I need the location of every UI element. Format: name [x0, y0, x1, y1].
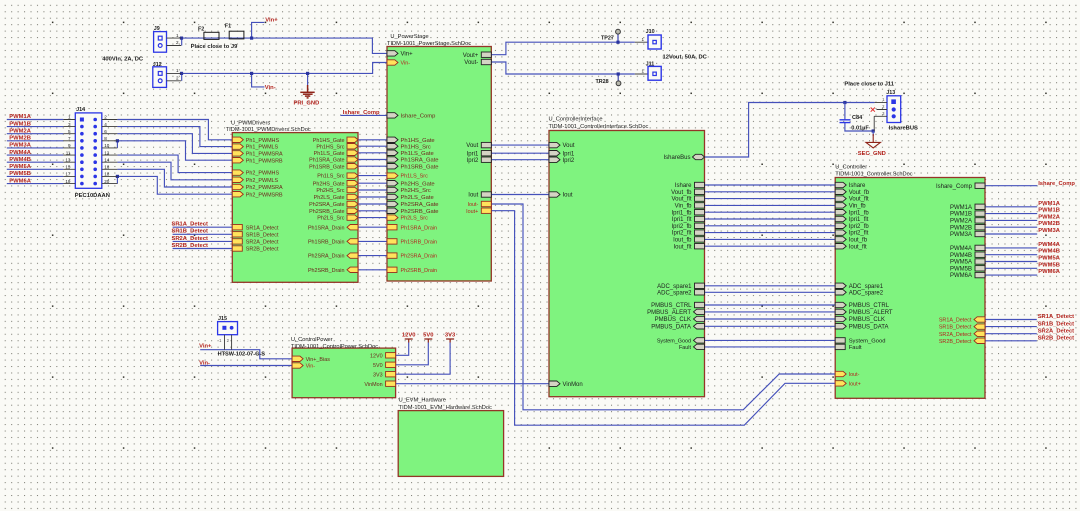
- wire Vin- to ControlPower: [200, 365, 292, 367]
- J15 pin lines: [225, 335, 232, 350]
- test point TP28: [616, 81, 621, 86]
- port Vin+: [387, 51, 398, 56]
- svg-text:18: 18: [104, 172, 110, 177]
- port ADC_spare1: [835, 283, 846, 288]
- svg-text:12Vout, 50A, DC: 12Vout, 50A, DC: [663, 55, 708, 61]
- svg-text:17: 17: [65, 172, 71, 177]
- capacitor C84: [840, 120, 851, 123]
- wires ControllerInterface to Controller feedback signals: [705, 184, 836, 186]
- port Vout+: [481, 52, 491, 57]
- port PWM2A: [975, 218, 985, 223]
- svg-text:3V3: 3V3: [373, 372, 383, 378]
- power port PRI_GND: [300, 85, 314, 98]
- fuse F1: [229, 31, 244, 39]
- svg-text:Ph1HS_Gate: Ph1HS_Gate: [401, 138, 435, 144]
- svg-text:ADC_spare1: ADC_spare1: [657, 284, 692, 290]
- port Ph2SRB_Drain: [347, 267, 358, 272]
- svg-text:PWM2A: PWM2A: [9, 128, 31, 134]
- port Ph1LS_Src: [387, 173, 398, 178]
- connector J11: [635, 73, 653, 75]
- svg-text:Fault: Fault: [849, 345, 862, 351]
- svg-text:J11: J11: [646, 62, 655, 68]
- svg-text:Vout-: Vout-: [464, 60, 478, 66]
- svg-text:Ph1SRA_Gate: Ph1SRA_Gate: [401, 158, 439, 164]
- svg-text:Vout+: Vout+: [463, 53, 479, 59]
- svg-text:400VIn, 2A, DC: 400VIn, 2A, DC: [102, 57, 144, 63]
- svg-text:Ph1_PWMHS: Ph1_PWMHS: [246, 138, 280, 144]
- svg-text:Ipri1: Ipri1: [467, 151, 479, 157]
- port System_Good: [694, 338, 705, 343]
- svg-text:Ph1LS_Gate: Ph1LS_Gate: [401, 151, 434, 157]
- svg-text:Ph1_PWMSRA: Ph1_PWMSRA: [246, 152, 283, 158]
- svg-text:Vout: Vout: [466, 143, 478, 149]
- svg-text:PMBUS_DATA: PMBUS_DATA: [849, 324, 889, 330]
- svg-text:Vin+_Bias: Vin+_Bias: [306, 357, 331, 363]
- power port SEC_GND: [866, 134, 880, 148]
- svg-text:PWM2A: PWM2A: [950, 219, 972, 225]
- port SR2A_Detect: [974, 331, 985, 336]
- port Ipri1_flt: [835, 216, 846, 221]
- junction TP27: [616, 41, 619, 44]
- svg-text:J14: J14: [76, 107, 85, 113]
- port Fault: [694, 344, 705, 349]
- port Ph2LS_Gate: [387, 194, 398, 199]
- port Ph2_PWMSRA: [232, 184, 243, 189]
- svg-text:PWM5A: PWM5A: [1038, 256, 1060, 262]
- svg-text:PWM1A: PWM1A: [950, 205, 972, 211]
- port ADC_spare2: [835, 290, 846, 295]
- port ADC_spare1: [695, 283, 705, 288]
- svg-text:PWM6A: PWM6A: [1038, 269, 1060, 275]
- port Ph2SRB_Gate: [347, 208, 358, 213]
- svg-text:PMBUS_ALERT: PMBUS_ALERT: [647, 310, 691, 316]
- svg-text:ADC_spare2: ADC_spare2: [849, 290, 884, 296]
- port Ipri1: [481, 151, 491, 156]
- svg-text:Ph2SRB_Drain: Ph2SRB_Drain: [401, 268, 438, 274]
- svg-text:Ph1SRA_Drain: Ph1SRA_Drain: [401, 225, 438, 231]
- svg-text:SR2B_Detect: SR2B_Detect: [939, 339, 972, 345]
- svg-text:U_PowerStage: U_PowerStage: [390, 34, 428, 40]
- svg-text:Ishare_Comp: Ishare_Comp: [936, 184, 973, 190]
- svg-text:U_ControllerInterface: U_ControllerInterface: [549, 117, 603, 123]
- svg-text:System_Good: System_Good: [657, 339, 691, 345]
- port SR1B_Detect: [232, 232, 242, 237]
- port Iout_flt: [695, 244, 705, 249]
- port SR1A_Detect: [232, 225, 242, 230]
- port Ph2HS_Src: [347, 187, 358, 192]
- svg-text:Vin-: Vin-: [401, 61, 411, 67]
- svg-text:Iout_fb: Iout_fb: [849, 238, 868, 244]
- svg-text:Vin-: Vin-: [306, 364, 316, 370]
- wire Ishare_Comp stub into PowerStage: [341, 114, 388, 116]
- power port 3V3: [446, 339, 454, 343]
- wire Iout+ to Controller: [491, 211, 836, 426]
- svg-text:PWM5B: PWM5B: [950, 266, 972, 272]
- svg-text:1: 1: [68, 115, 71, 120]
- wire Ipri1: [491, 152, 549, 154]
- port PWM4B: [975, 252, 985, 257]
- port Vout_fb: [835, 189, 846, 194]
- svg-text:PWM4B: PWM4B: [1038, 249, 1060, 255]
- svg-text:SR2A_Detect: SR2A_Detect: [246, 240, 279, 246]
- svg-text:J13: J13: [886, 90, 895, 96]
- port Ishare: [695, 182, 705, 187]
- svg-text:ADC_spare2: ADC_spare2: [657, 290, 692, 296]
- svg-text:Ph2LS_Gate: Ph2LS_Gate: [314, 195, 345, 201]
- svg-text:2: 2: [176, 76, 179, 81]
- wire Vin+ to ControlPower: [200, 350, 292, 359]
- svg-text:Iout: Iout: [563, 193, 573, 199]
- port Ishare: [835, 182, 846, 187]
- wire Ishare_Comp stub right of Controller: [985, 185, 1037, 187]
- svg-text:Ipri1: Ipri1: [563, 151, 575, 157]
- port System_Good: [835, 338, 845, 343]
- port Vin_fb: [695, 203, 705, 208]
- svg-text:Ipri2_flt: Ipri2_flt: [672, 231, 692, 237]
- svg-text:Ph2_PWMSRB: Ph2_PWMSRB: [246, 192, 283, 198]
- svg-text:PWM6A: PWM6A: [950, 273, 972, 279]
- svg-text:Ph1SRB_Gate: Ph1SRB_Gate: [401, 164, 439, 170]
- port PWM5A: [975, 259, 985, 264]
- sheet symbol U_EVM_Hardware: [398, 411, 503, 477]
- svg-text:5V0: 5V0: [373, 363, 383, 369]
- junction Vin+ branch: [250, 37, 253, 40]
- wires PWM output stubs right of Controller: [985, 206, 1037, 208]
- port Ipri1_fb: [835, 210, 846, 215]
- svg-text:PWM2B: PWM2B: [1038, 221, 1060, 227]
- svg-text:9: 9: [68, 143, 71, 148]
- port Vin+_Bias: [292, 356, 303, 361]
- svg-text:7: 7: [68, 136, 71, 141]
- wire 12V0 rail: [396, 343, 409, 356]
- port Ph1_PWMLS: [232, 144, 243, 149]
- svg-text:3V3: 3V3: [445, 333, 456, 339]
- svg-text:10: 10: [104, 143, 110, 148]
- port 12V0: [386, 353, 396, 358]
- port Ipri1_fb: [695, 210, 705, 215]
- svg-text:Ph1SRB_Gate: Ph1SRB_Gate: [309, 164, 344, 170]
- svg-text:PWM3A: PWM3A: [950, 232, 972, 238]
- port Vin-: [387, 60, 398, 65]
- svg-text:Ph2LS_Gate: Ph2LS_Gate: [401, 195, 434, 201]
- wire ControlPower VinMon to ControllerInterface: [396, 383, 549, 385]
- test point TP27: [616, 29, 621, 34]
- port Iout_fb: [835, 237, 846, 242]
- svg-text:Place close to J11: Place close to J11: [844, 81, 894, 87]
- svg-text:C84: C84: [852, 115, 863, 121]
- svg-text:Ph1HS_Gate: Ph1HS_Gate: [313, 138, 345, 144]
- svg-text:SR1B_Detect: SR1B_Detect: [246, 232, 279, 238]
- port Ph1SRB_Gate: [347, 164, 358, 169]
- svg-text:SR1A_Detect: SR1A_Detect: [1038, 314, 1074, 320]
- svg-text:Ph2LS_Src: Ph2LS_Src: [317, 216, 345, 222]
- svg-text:PWM2B: PWM2B: [9, 136, 31, 142]
- svg-text:Ph2_PWMSRA: Ph2_PWMSRA: [246, 185, 283, 191]
- port Iout-: [481, 201, 491, 206]
- svg-text:TP27: TP27: [601, 35, 614, 41]
- junction SEC_GND node: [872, 129, 875, 132]
- svg-text:2: 2: [104, 115, 107, 120]
- port Ph1HS_Src: [347, 144, 358, 149]
- svg-text:SR2A_Detect: SR2A_Detect: [939, 332, 972, 338]
- port Ipri2: [549, 157, 560, 162]
- connector J13: [887, 96, 901, 123]
- port Ph2HS_Gate: [347, 181, 358, 186]
- junction J14 pin8/10: [116, 139, 119, 142]
- port Ph2HS_Src: [387, 187, 398, 192]
- svg-text:J9: J9: [154, 26, 160, 32]
- svg-text:Vin+: Vin+: [265, 17, 278, 23]
- svg-text:Vin-: Vin-: [199, 360, 210, 366]
- svg-text:Ph1SRB_Drain: Ph1SRB_Drain: [401, 240, 438, 246]
- svg-text:5: 5: [68, 129, 71, 134]
- wire J12 pin2 hook: [181, 73, 183, 80]
- svg-text:TIDM-1001_ControlPower.SchDoc: TIDM-1001_ControlPower.SchDoc: [291, 344, 378, 350]
- junction J14 pin18/20: [116, 175, 119, 178]
- svg-text:SR1A_Detect: SR1A_Detect: [172, 222, 208, 228]
- svg-text:SEC_GND: SEC_GND: [858, 151, 886, 157]
- svg-text:Ipri2_flt: Ipri2_flt: [849, 231, 869, 237]
- wire C84 top lead: [844, 103, 846, 120]
- svg-text:TR28: TR28: [596, 79, 609, 85]
- svg-text:Vout_flt: Vout_flt: [671, 197, 691, 203]
- power port 5V0: [424, 339, 432, 343]
- sheet symbol U_Controller: [835, 178, 985, 399]
- port Iout+: [835, 381, 846, 386]
- wire 5V0 rail: [396, 343, 429, 365]
- svg-text:J15: J15: [218, 316, 227, 322]
- port SR2B_Detect: [974, 338, 985, 343]
- port PMBUS_DATA: [694, 324, 705, 329]
- port Ph1SRA_Drain: [387, 225, 397, 230]
- svg-text:Ph2_PWMHS: Ph2_PWMHS: [246, 171, 280, 177]
- svg-text:Ipri2: Ipri2: [563, 158, 575, 164]
- wire to PRI_GND: [307, 73, 309, 86]
- svg-text:Ph1SRA_Drain: Ph1SRA_Drain: [308, 225, 345, 231]
- svg-text:Iout+: Iout+: [849, 382, 861, 388]
- svg-text:PWM1B: PWM1B: [9, 121, 31, 127]
- svg-text:Ipri1_flt: Ipri1_flt: [672, 217, 692, 223]
- port Vout_fb: [695, 189, 705, 194]
- svg-text:Ipri2_fb: Ipri2_fb: [849, 224, 870, 230]
- svg-text:Ph2SRB_Drain: Ph2SRB_Drain: [308, 268, 345, 274]
- svg-text:4: 4: [104, 122, 107, 127]
- port Iout-: [835, 371, 846, 376]
- svg-text:Vin+: Vin+: [401, 52, 414, 58]
- svg-text:15: 15: [65, 165, 71, 170]
- svg-text:Ph2SRB_Gate: Ph2SRB_Gate: [401, 209, 439, 215]
- svg-text:1: 1: [176, 68, 179, 73]
- svg-text:Ph2HS_Gate: Ph2HS_Gate: [401, 181, 435, 187]
- svg-text:SR2A_Detect: SR2A_Detect: [1038, 328, 1074, 334]
- svg-text:PWM5A: PWM5A: [9, 164, 31, 170]
- wire Vout- to J11: [491, 62, 635, 74]
- wire J12 to Vin- of PowerStage: [181, 63, 387, 74]
- wire 3V3 rail: [396, 343, 451, 375]
- port Vout: [481, 142, 491, 147]
- port SR2B_Detect: [232, 246, 242, 251]
- port Ph1SRB_Drain: [347, 239, 358, 244]
- svg-text:PMBUS_CLK: PMBUS_CLK: [655, 317, 691, 323]
- svg-text:ADC_spare1: ADC_spare1: [849, 284, 884, 290]
- svg-text:SR1B_Detect: SR1B_Detect: [1038, 321, 1074, 327]
- wire Vout PowerStage to ControllerInterface: [491, 144, 549, 146]
- svg-text:PEC10DAAN: PEC10DAAN: [75, 193, 110, 199]
- svg-text:SR2B_Detect: SR2B_Detect: [246, 247, 279, 253]
- port Ph2LS_Gate: [347, 194, 358, 199]
- port PMBUS_DATA: [835, 324, 846, 329]
- svg-text:SR1B_Detect: SR1B_Detect: [939, 325, 972, 331]
- svg-text:IshareBus: IshareBus: [663, 155, 690, 161]
- port Ph1SRA_Gate: [347, 157, 358, 162]
- wires PWMDrivers gate outputs to PowerStage: [358, 139, 387, 141]
- svg-text:System_Good: System_Good: [849, 339, 886, 345]
- svg-text:PWM4A: PWM4A: [1038, 242, 1060, 248]
- svg-text:13: 13: [65, 157, 71, 162]
- junction Vin- branch: [250, 72, 253, 75]
- junction TP28: [617, 72, 620, 75]
- svg-text:Iout_fb: Iout_fb: [673, 238, 692, 244]
- port PMBUS_CLK: [694, 316, 705, 321]
- port Ph1LS_Gate: [387, 150, 398, 155]
- wire TP27 stem: [617, 34, 619, 42]
- junction J12 pins: [180, 72, 183, 75]
- sheet symbol U_PowerStage: [387, 47, 491, 282]
- svg-text:Vout: Vout: [563, 143, 575, 149]
- svg-text:Iout-: Iout-: [468, 202, 479, 208]
- port 5V0: [386, 362, 396, 367]
- svg-text:Vout_fb: Vout_fb: [849, 190, 870, 196]
- port Ph2_PWMSRB: [232, 192, 243, 197]
- svg-text:F2: F2: [198, 27, 204, 33]
- port SR1B_Detect: [974, 324, 985, 329]
- port Vout: [549, 142, 560, 147]
- svg-text:PMBUS_CTRL: PMBUS_CTRL: [849, 303, 890, 309]
- svg-text:Ph1LS_Src: Ph1LS_Src: [401, 174, 429, 180]
- port Ph1HS_Gate: [387, 137, 398, 142]
- svg-text:Place close to J9: Place close to J9: [191, 44, 238, 50]
- svg-text:Ph2SRB_Gate: Ph2SRB_Gate: [309, 209, 344, 215]
- svg-text:PMBUS_ALERT: PMBUS_ALERT: [849, 310, 893, 316]
- svg-text:PWM5A: PWM5A: [950, 260, 972, 266]
- port Vout_flt: [695, 196, 705, 201]
- svg-text:Vout_flt: Vout_flt: [849, 197, 869, 203]
- wire Iout: [491, 194, 549, 196]
- svg-text:PWM4B: PWM4B: [9, 157, 31, 163]
- svg-text:Ph1SRA_Gate: Ph1SRA_Gate: [309, 158, 344, 164]
- svg-text:PWM1B: PWM1B: [1038, 208, 1060, 214]
- port Ph1SRB_Drain: [387, 239, 397, 244]
- port Ipri2_flt: [695, 230, 705, 235]
- svg-text:Fault: Fault: [679, 345, 691, 351]
- port Ph1LS_Gate: [347, 150, 358, 155]
- connector J10: [635, 41, 653, 43]
- svg-text:TIDM-1001_EVM_Hardware.SchDoc: TIDM-1001_EVM_Hardware.SchDoc: [399, 405, 492, 411]
- port Ph2SRB_Gate: [387, 208, 398, 213]
- wire J9 to fuses to Vin+ of PowerStage: [181, 38, 387, 53]
- port IshareBus: [693, 154, 705, 159]
- port Iout_flt: [835, 244, 846, 249]
- svg-text:J10: J10: [646, 29, 655, 35]
- port Vin_fb: [835, 203, 846, 208]
- svg-text:Vin_fb: Vin_fb: [849, 204, 867, 210]
- svg-text:2: 2: [176, 40, 179, 45]
- wire SEC_GND stem: [872, 131, 874, 136]
- svg-text:HTSW-102-07-G-S: HTSW-102-07-G-S: [218, 351, 266, 357]
- svg-text:PWM2A: PWM2A: [1038, 214, 1060, 220]
- svg-text:19: 19: [65, 179, 71, 184]
- junction PRI_GND: [306, 72, 309, 75]
- connector J12: [153, 67, 167, 88]
- port Ph1_PWMHS: [232, 137, 243, 142]
- svg-text:SR2A_Detect: SR2A_Detect: [172, 236, 208, 242]
- J9 pin lines: [167, 38, 182, 45]
- svg-text:VinMon: VinMon: [364, 382, 382, 388]
- svg-text:Ph2HS_Src: Ph2HS_Src: [401, 188, 431, 194]
- svg-text:PWM3A: PWM3A: [9, 143, 31, 149]
- svg-text:Vout_fb: Vout_fb: [671, 190, 692, 196]
- port Ph1SRA_Gate: [387, 157, 398, 162]
- sheet symbol U_ControllerInterface: [549, 131, 705, 397]
- svg-text:20: 20: [104, 179, 110, 184]
- svg-text:PWM1A: PWM1A: [9, 114, 31, 120]
- wire Vout+ to J10: [491, 42, 635, 55]
- port Vout-: [481, 59, 491, 64]
- port PMBUS_CTRL: [695, 302, 705, 307]
- svg-text:Ishare: Ishare: [849, 183, 866, 189]
- svg-text:12V0: 12V0: [370, 353, 383, 359]
- svg-text:Ph1HS_Src: Ph1HS_Src: [316, 144, 344, 150]
- wire Vin- label stub: [252, 73, 265, 87]
- port PMBUS_ALERT: [694, 309, 705, 314]
- svg-text:Vin_fb: Vin_fb: [675, 204, 693, 210]
- wire C84 bottom lead to SEC_GND: [845, 123, 873, 131]
- power port 12V0: [405, 339, 413, 343]
- svg-text:Ph1LS_Gate: Ph1LS_Gate: [314, 151, 345, 157]
- port Ph2LS_Src: [387, 215, 398, 220]
- port Ph2SRB_Drain: [387, 267, 397, 272]
- wire J9 pin2 hook: [181, 38, 183, 45]
- svg-text:VinMon: VinMon: [563, 382, 583, 388]
- svg-text:PMBUS_CTRL: PMBUS_CTRL: [651, 303, 692, 309]
- port Ph2SRA_Drain: [347, 253, 358, 258]
- svg-text:J12: J12: [153, 62, 162, 68]
- port Iout: [549, 192, 560, 197]
- port Ph2LS_Src: [347, 215, 358, 220]
- svg-text:5V0: 5V0: [423, 333, 433, 339]
- svg-text:Ph2HS_Src: Ph2HS_Src: [316, 188, 344, 194]
- svg-text:Ph2SRA_Drain: Ph2SRA_Drain: [308, 254, 345, 260]
- port Ph2SRA_Gate: [347, 201, 358, 206]
- svg-text:Ph2SRA_Drain: Ph2SRA_Drain: [401, 254, 438, 260]
- port Ph1_PWMSRA: [232, 151, 243, 156]
- port PWM1A: [975, 204, 985, 209]
- wire Ipri2: [491, 159, 549, 161]
- port PMBUS_ALERT: [835, 309, 846, 314]
- svg-text:Ph1_PWMSRB: Ph1_PWMSRB: [246, 158, 283, 164]
- port Ipri1_flt: [695, 216, 705, 221]
- port PMBUS_CTRL: [835, 302, 846, 307]
- wires PWM net stubs left of J14: [7, 119, 64, 121]
- svg-text:Ph1_PWMLS: Ph1_PWMLS: [246, 145, 279, 151]
- port Iout+: [481, 208, 491, 213]
- svg-text:TIDM-1001_Controller.SchDoc: TIDM-1001_Controller.SchDoc: [835, 172, 913, 178]
- svg-text:Ph2SRA_Gate: Ph2SRA_Gate: [309, 202, 344, 208]
- svg-text:Ishare: Ishare: [675, 183, 692, 189]
- port Iout: [481, 192, 491, 197]
- port Ph1_PWMSRB: [232, 158, 243, 163]
- svg-text:PWM4B: PWM4B: [950, 253, 972, 259]
